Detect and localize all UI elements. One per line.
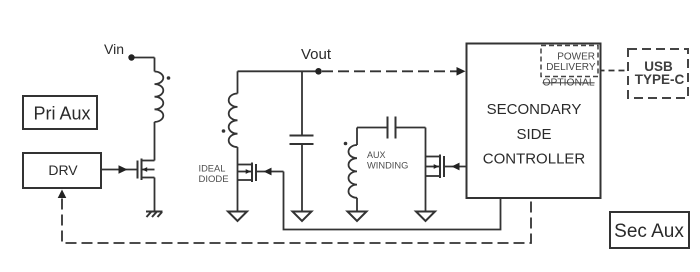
svg-text:Sec Aux: Sec Aux xyxy=(614,221,684,242)
svg-text:CONTROLLER: CONTROLLER xyxy=(483,151,586,168)
svg-text:OPTIONAL: OPTIONAL xyxy=(543,78,595,89)
svg-text:AUX: AUX xyxy=(367,150,386,160)
svg-text:WINDING: WINDING xyxy=(367,160,408,170)
svg-text:Vin: Vin xyxy=(104,41,124,57)
svg-text:DIODE: DIODE xyxy=(199,174,229,185)
svg-text:TYPE-C: TYPE-C xyxy=(635,72,685,87)
svg-text:DRV: DRV xyxy=(48,162,78,178)
svg-text:POWER: POWER xyxy=(557,52,595,63)
svg-text:SECONDARY: SECONDARY xyxy=(487,101,582,118)
svg-text:DELIVERY: DELIVERY xyxy=(546,62,596,73)
svg-text:Vout: Vout xyxy=(301,46,332,63)
svg-text:IDEAL: IDEAL xyxy=(199,164,226,174)
svg-text:Pri Aux: Pri Aux xyxy=(33,104,90,124)
svg-text:SIDE: SIDE xyxy=(516,126,551,143)
